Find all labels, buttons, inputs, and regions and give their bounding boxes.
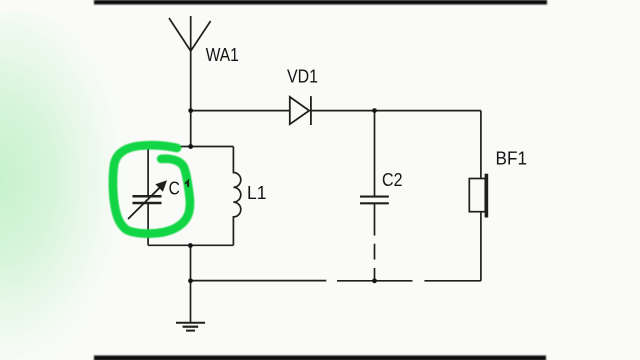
wire (ground bus segment 1) — [191, 280, 327, 282]
wire (node A to diode anode) — [191, 110, 290, 112]
node C (tank top junction) — [188, 144, 193, 149]
capacitor C2 — [360, 111, 389, 281]
label C1 (digit 1 tip visible over marker) — [185, 181, 188, 187]
wire (BF1 to ground bus) — [480, 212, 482, 281]
wire (tank top left segment) — [148, 146, 191, 148]
inductor L1 — [233, 147, 240, 246]
wire (tank bottom to ground bus) — [190, 245, 192, 280]
node B (C2 top junction) — [372, 108, 377, 113]
wire (ground bus segment 2, dashed) — [337, 280, 413, 282]
diode VD1 — [290, 96, 311, 125]
wire (node A down to tank top) — [190, 111, 192, 147]
wire (tank top right segment) — [191, 146, 234, 148]
ground — [176, 281, 205, 331]
svg-text:L1: L1 — [247, 183, 267, 203]
capacitor C1 (variable) — [128, 147, 166, 246]
antenna WA1 — [169, 16, 211, 51]
wire (ground bus segment 3, dashed) — [424, 280, 481, 282]
svg-text:WA1: WA1 — [206, 45, 239, 65]
annotation green marker loop around C1 — [113, 145, 190, 233]
node A (antenna/diode junction) — [188, 108, 193, 113]
node E (ground bus junction) — [188, 278, 193, 283]
node D (tank bottom junction) — [188, 243, 193, 248]
svg-text:C2: C2 — [382, 170, 403, 190]
node F (C2 bottom junction) — [372, 278, 377, 283]
wire (top wire to BF1) — [480, 111, 482, 179]
svg-text:VD1: VD1 — [287, 67, 318, 87]
wire (tank bottom left segment) — [148, 244, 190, 246]
speaker BF1 — [469, 174, 486, 218]
svg-text:BF1: BF1 — [496, 149, 528, 169]
wire (diode cathode to BF1 corner) — [311, 110, 481, 112]
wire (antenna lead) — [190, 51, 192, 111]
svg-text:C: C — [169, 178, 180, 198]
wire (tank bottom right segment) — [190, 244, 233, 246]
